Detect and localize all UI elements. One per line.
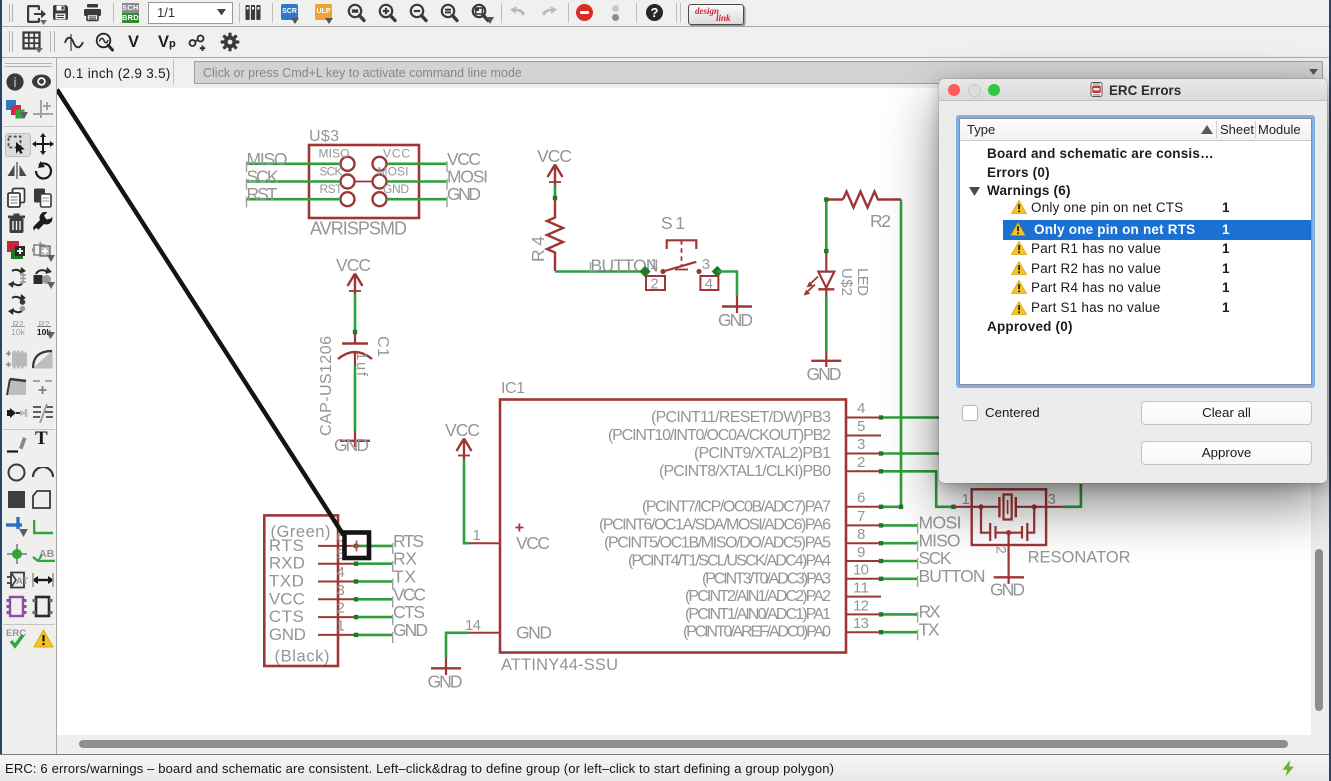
svg-text:10: 10 [853,562,869,579]
svg-text:9: 9 [857,544,865,561]
svg-text:GND: GND [516,623,552,643]
svg-text:VCC: VCC [516,533,550,553]
svg-text:GND: GND [428,672,463,692]
svg-text:(PCINT9/XTAL2)PB1: (PCINT9/XTAL2)PB1 [694,445,831,462]
svg-text:(PCINT5/OC1B/MISO/DO/ADC5)PA5: (PCINT5/OC1B/MISO/DO/ADC5)PA5 [604,535,831,552]
svg-text:3: 3 [1048,491,1056,508]
svg-text:GND: GND [718,310,753,330]
svg-text:4: 4 [337,564,345,581]
svg-text:(PCINT2/AIN1/ADC2)PA2: (PCINT2/AIN1/ADC2)PA2 [685,588,831,605]
svg-text:RST: RST [247,184,278,204]
svg-text:AB: AB [39,548,55,560]
svg-text:4: 4 [705,277,713,293]
svg-text:(PCINT10/INT0/OC0A/CKOUT)PB2: (PCINT10/INT0/OC0A/CKOUT)PB2 [608,427,831,444]
svg-text:GND: GND [807,364,842,384]
svg-text:U$2: U$2 [838,268,855,296]
svg-text:GND: GND [269,625,306,644]
svg-text:7: 7 [857,508,865,525]
svg-text:VCC: VCC [269,589,305,608]
svg-text:U$3: U$3 [309,128,339,145]
svg-text:ATTINY44-SSU: ATTINY44-SSU [501,656,618,674]
svg-text:VCC: VCC [445,420,480,440]
svg-text:BUTTON: BUTTON [919,566,986,586]
svg-text:2: 2 [994,546,1010,554]
svg-text:14: 14 [465,617,481,634]
svg-text:SCK: SCK [320,164,343,178]
svg-text:(Black): (Black) [275,648,330,666]
svg-text:12: 12 [853,597,869,614]
svg-text:1: 1 [473,527,481,544]
svg-text:CAP-US1206: CAP-US1206 [318,336,335,436]
svg-text:2: 2 [857,454,865,471]
svg-text:6: 6 [857,490,865,507]
svg-text:RXD: RXD [269,554,305,573]
svg-text:VCC: VCC [336,255,371,275]
svg-text:3: 3 [702,257,710,273]
svg-text:VCC: VCC [383,147,410,161]
svg-text:(PCINT4/T1/SCL/USCK/ADC4)PA4: (PCINT4/T1/SCL/USCK/ADC4)PA4 [628,553,831,570]
svg-text:R2: R2 [870,211,891,231]
svg-text:(PCINT1/AIN0/ADC1)PA1: (PCINT1/AIN0/ADC1)PA1 [685,606,831,623]
svg-text:i: i [13,75,17,90]
svg-text:CTS: CTS [269,607,304,626]
svg-text:(PCINT8/XTAL1/CLKI)PB0: (PCINT8/XTAL1/CLKI)PB0 [659,463,831,480]
svg-text:1uf: 1uf [353,352,369,377]
svg-text:(PCINT3/T0/ADC3)PA3: (PCINT3/T0/ADC3)PA3 [702,570,831,587]
svg-text:S1: S1 [661,213,685,233]
svg-text:TXD: TXD [269,572,304,591]
svg-text:IC1: IC1 [501,380,525,397]
svg-text:AVRISPSMD: AVRISPSMD [310,219,407,239]
svg-text:1: 1 [337,617,345,634]
svg-text:1: 1 [650,257,658,273]
svg-text:11: 11 [853,580,869,597]
svg-text:4: 4 [857,400,865,417]
svg-text:GND: GND [393,620,428,640]
svg-text:(PCINT7/ICP/OC0B/ADC7)PA7: (PCINT7/ICP/OC0B/ADC7)PA7 [642,498,831,515]
svg-text:LED: LED [854,268,871,296]
svg-text:C1: C1 [374,336,391,357]
svg-text:MOSI: MOSI [378,164,409,178]
svg-text:(PCINT11/RESET/DW)PB3: (PCINT11/RESET/DW)PB3 [651,409,831,426]
svg-text:2: 2 [337,600,345,617]
svg-text:RESONATOR: RESONATOR [1028,549,1131,567]
svg-text:3: 3 [857,436,865,453]
svg-text:GND: GND [334,435,369,455]
svg-text:5: 5 [857,418,865,435]
svg-text:(PCINT6/OC1A/SDA/MOSI/ADC6)PA6: (PCINT6/OC1A/SDA/MOSI/ADC6)PA6 [599,517,831,534]
svg-text:1: 1 [962,491,970,508]
svg-text:TX: TX [919,619,940,639]
svg-text:8: 8 [857,526,865,543]
svg-text:GND: GND [447,184,481,204]
svg-text:13: 13 [853,615,869,632]
svg-text:VCC: VCC [537,146,572,166]
svg-text:RST: RST [320,182,344,196]
svg-text:AT: AT [16,576,28,587]
svg-text:GND: GND [383,182,409,196]
svg-text:MISO: MISO [319,147,350,161]
svg-text:GND: GND [990,580,1025,600]
svg-text:(PCINT0/AREF/ADC0)PA0: (PCINT0/AREF/ADC0)PA0 [683,624,831,641]
svg-text:RTS: RTS [269,536,304,555]
svg-text:2: 2 [651,277,659,293]
svg-text:3: 3 [337,582,345,599]
